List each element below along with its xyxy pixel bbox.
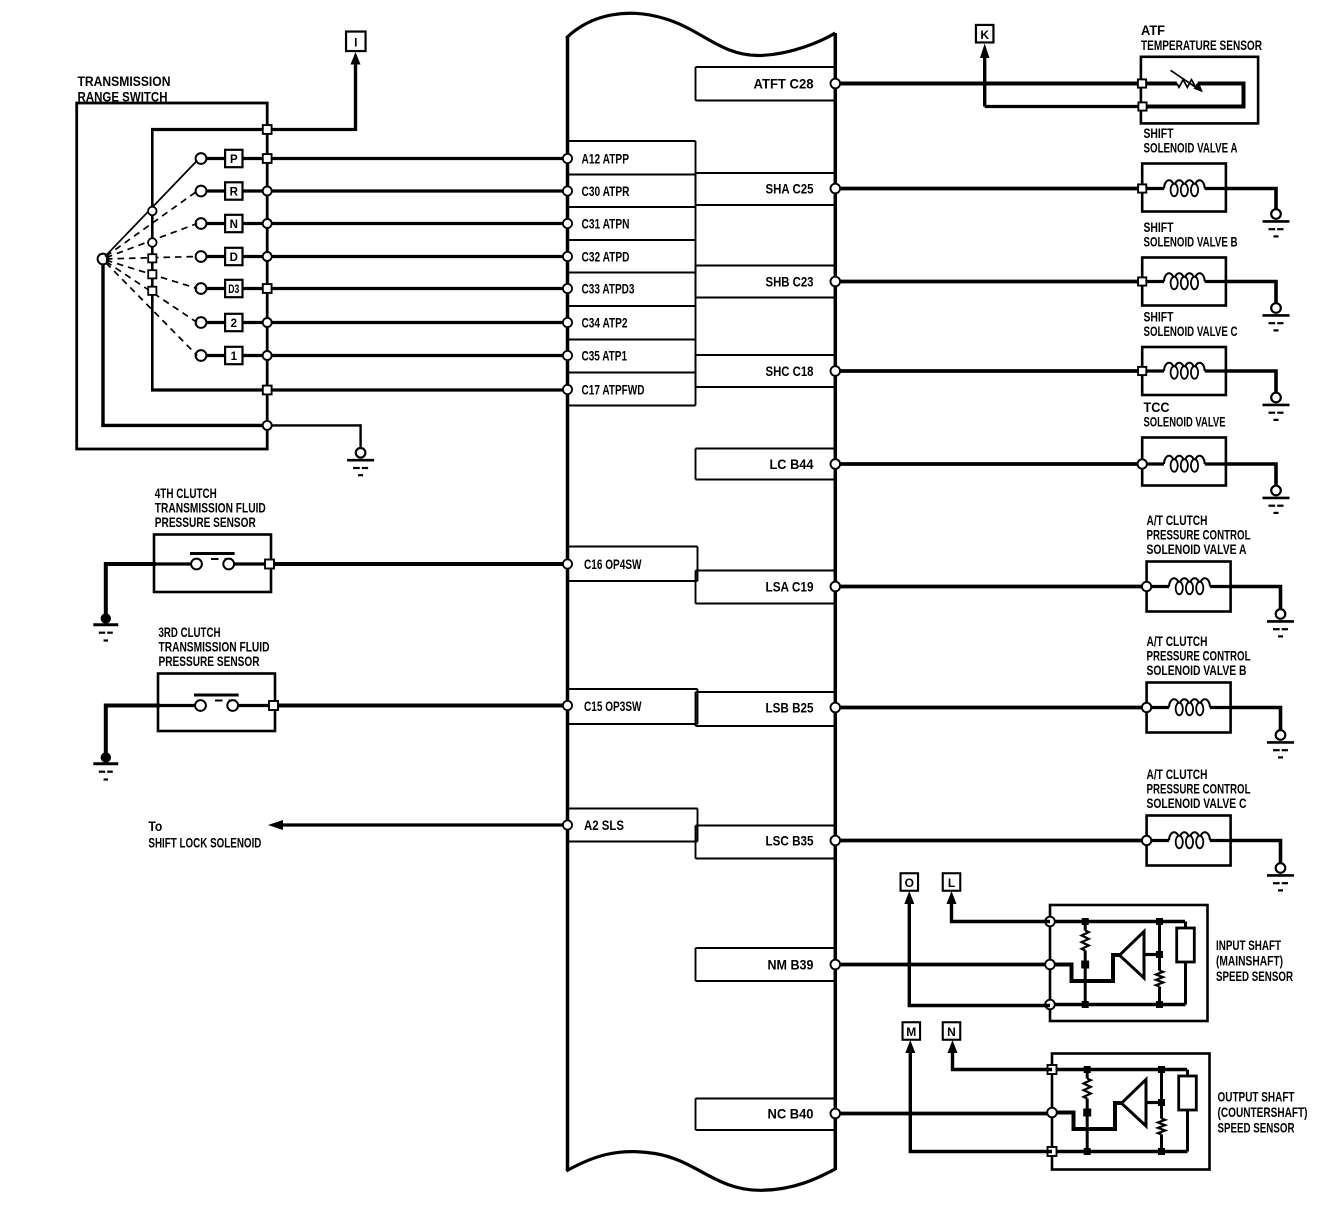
range switch terminal (263, 219, 272, 228)
ECU pin ATFT C28 (831, 79, 841, 89)
shift solenoid valve C box (1142, 347, 1226, 395)
shift solenoid valve A terminal (1138, 184, 1146, 192)
selector arm dashed line to 2 (106, 262, 197, 323)
wire input sensor to connector L (952, 896, 1051, 922)
output shaft speed sensor input staircase wire (1054, 1103, 1122, 1129)
svg-text:LC B44: LC B44 (770, 456, 814, 472)
ECU connector top wavy edge (566, 13, 835, 55)
range switch position wire R (206, 189, 567, 192)
wire 3rd clutch transmission fluid pressure sensor to ECU (278, 704, 567, 708)
A/T clutch pressure control solenoid valve A ground wire (1231, 587, 1281, 613)
svg-text:L: L (948, 876, 955, 890)
svg-text:N: N (947, 1025, 956, 1039)
4th clutch transmission fluid pressure sensor terminal (265, 560, 274, 569)
svg-text:M: M (906, 1025, 916, 1039)
3rd clutch transmission fluid pressure sensor ground wire (106, 706, 160, 755)
svg-text:LSA C19: LSA C19 (766, 579, 814, 595)
ECU pin (831, 184, 841, 194)
input shaft speed sensor bottom rail (1050, 1003, 1186, 1007)
A/T clutch pressure control solenoid valve A coil (1150, 585, 1169, 588)
range switch contact R (196, 186, 207, 197)
3rd clutch transmission fluid pressure sensor switch (158, 704, 201, 707)
ECU pin (563, 252, 572, 261)
ATF sensor inner loop wire (1144, 84, 1244, 107)
range switch pivot contact (98, 254, 109, 265)
A/T clutch pressure control solenoid valve C ground wire (1231, 841, 1281, 867)
crossing node on inner vertical (148, 287, 156, 295)
svg-text:(COUNTERSHAFT): (COUNTERSHAFT) (1218, 1104, 1308, 1120)
range switch position wire 1 (206, 354, 567, 357)
TCC solenoid valve terminal (1138, 459, 1147, 468)
4th clutch transmission fluid pressure sensor ground wire (106, 564, 156, 616)
ECU connector left edge (566, 37, 570, 1171)
crossing node on inner vertical (148, 207, 157, 216)
crossing node on inner vertical (148, 238, 157, 247)
pin box SHC C18 (696, 354, 836, 356)
ECU pin (831, 459, 841, 469)
shift solenoid valve A box (1142, 164, 1226, 212)
wire ECU to A/T clutch pressure control solenoid valve C (835, 839, 1147, 843)
4th clutch transmission fluid pressure sensor switch (154, 562, 197, 565)
svg-text:OUTPUT SHAFT: OUTPUT SHAFT (1218, 1089, 1295, 1105)
svg-text:K: K (980, 28, 989, 42)
wire ECU to shift solenoid valve A (835, 187, 1142, 191)
svg-text:SHB C23: SHB C23 (766, 274, 814, 290)
range switch inner wire vertical (151, 130, 154, 391)
svg-text:SPEED SENSOR: SPEED SENSOR (1218, 1120, 1295, 1136)
TCC solenoid valve coil (1146, 462, 1164, 465)
range switch terminal (263, 351, 272, 360)
ATF sensor terminal bottom (1138, 102, 1146, 110)
svg-text:TRANSMISSION: TRANSMISSION (78, 73, 171, 89)
A/T clutch pressure control solenoid valve A terminal (1142, 582, 1151, 591)
position letter box N (225, 215, 242, 232)
ECU pin (831, 366, 841, 376)
svg-text:TEMPERATURE SENSOR: TEMPERATURE SENSOR (1141, 37, 1262, 53)
crossing node on inner vertical (148, 270, 156, 278)
ECU pin (563, 701, 572, 710)
position letter box 2 (225, 314, 242, 331)
A/T clutch pressure control solenoid valve B ground (1276, 730, 1286, 740)
output shaft speed sensor op-amp output wire (1146, 1101, 1162, 1104)
wire sensor to connector K (985, 105, 1143, 108)
shift solenoid valve B ground (1271, 303, 1281, 313)
range switch contact D (196, 251, 207, 262)
output shaft speed sensor box (1052, 1054, 1210, 1170)
svg-text:2: 2 (231, 318, 237, 330)
svg-text:INPUT SHAFT: INPUT SHAFT (1216, 937, 1281, 953)
range switch contact 1 (196, 350, 207, 361)
shift solenoid valve B box (1142, 258, 1226, 306)
output shaft speed sensor bottom rail (1052, 1150, 1188, 1154)
range switch position wire 2 (206, 321, 567, 324)
shift solenoid valve B terminal (1138, 277, 1146, 285)
pin box C16 OP4SW (568, 546, 698, 548)
output shaft speed sensor pins (1048, 1065, 1057, 1074)
ECU pin A2 SLS (563, 820, 572, 829)
pin box C15 OP3SW (568, 688, 698, 690)
shift solenoid valve A ground wire (1226, 189, 1276, 213)
ECU pin (563, 154, 572, 163)
shift solenoid valve C terminal (1138, 367, 1146, 375)
ECU left pin-box column grid (568, 140, 696, 142)
range switch position wire D3 (206, 287, 567, 290)
input shaft speed sensor resistor R1 (1084, 922, 1087, 931)
position letter box 1 (225, 347, 242, 364)
connector box M (903, 1022, 921, 1040)
svg-text:SOLENOID VALVE C: SOLENOID VALVE C (1147, 795, 1247, 811)
ECU pin (563, 559, 572, 568)
input shaft speed sensor pins (1045, 917, 1055, 927)
pin box LSC B35 (696, 825, 836, 827)
selector arm dashed line to N (106, 224, 197, 258)
svg-text:ATFT C28: ATFT C28 (754, 76, 814, 92)
range switch ground (356, 448, 366, 458)
ECU pin (831, 582, 841, 592)
wire ECU to A/T clutch pressure control solenoid valve B (835, 706, 1147, 710)
3rd clutch transmission fluid pressure sensor box (158, 674, 275, 732)
ECU pin (563, 318, 572, 327)
selector arm engaged line to P (105, 161, 197, 257)
input shaft speed sensor resistor R2 (1158, 922, 1161, 971)
wire I arrow vertical (354, 60, 357, 131)
range switch terminal (263, 187, 272, 196)
TCC solenoid valve ground (1271, 486, 1281, 496)
svg-text:P: P (230, 154, 238, 166)
svg-text:C17 ATPFWD: C17 ATPFWD (582, 382, 645, 398)
connector box K (976, 25, 994, 43)
range switch terminal C17 (263, 386, 272, 395)
pin box SHA C25 (696, 172, 836, 174)
shift solenoid valve B ground wire (1226, 282, 1276, 307)
input shaft speed sensor input staircase wire (1052, 955, 1120, 981)
svg-text:To: To (148, 818, 162, 834)
svg-text:SPEED SENSOR: SPEED SENSOR (1216, 968, 1293, 984)
ECU pin (831, 703, 841, 713)
pin box ATFT C28 (696, 66, 836, 68)
pin box NM B39 (696, 947, 836, 949)
svg-text:(MAINSHAFT): (MAINSHAFT) (1216, 953, 1283, 969)
selector arm dashed line to D3 (106, 260, 197, 288)
wire ECU to shift solenoid valve C (835, 369, 1142, 373)
range switch terminal (263, 252, 272, 261)
pin box LSB B25 (696, 691, 836, 693)
connector box O (901, 873, 919, 891)
A/T clutch pressure control solenoid valve B box (1147, 683, 1231, 733)
range switch C17 ATPFWD wire (151, 388, 567, 391)
wire A2 SLS to shift lock solenoid (281, 823, 567, 826)
svg-text:SOLENOID VALVE A: SOLENOID VALVE A (1144, 140, 1238, 156)
crossing node on inner vertical (148, 254, 156, 262)
ECU pin (563, 385, 572, 394)
ECU connector right edge (834, 33, 838, 1170)
connector box L (943, 873, 961, 891)
range switch position wire N (206, 222, 567, 225)
range switch terminal (263, 284, 272, 293)
selector arm dashed line to R (106, 191, 197, 256)
shift solenoid valve B coil (1146, 280, 1164, 283)
ECU pin (563, 219, 572, 228)
shift solenoid valve A coil (1146, 187, 1164, 190)
A/T clutch pressure control solenoid valve B ground wire (1231, 708, 1281, 734)
svg-text:D: D (230, 252, 238, 264)
svg-text:D3: D3 (228, 284, 239, 296)
range switch contact D3 (196, 283, 207, 294)
output shaft speed sensor load resistor (1186, 1070, 1189, 1077)
position letter box R (225, 182, 242, 199)
connector box I (346, 32, 366, 52)
svg-text:A2 SLS: A2 SLS (584, 817, 624, 833)
range switch top wire to connector I (151, 128, 356, 131)
svg-text:C33 ATPD3: C33 ATPD3 (582, 281, 635, 297)
svg-text:R: R (230, 187, 239, 199)
input shaft speed sensor load resistor (1184, 922, 1187, 929)
range switch contact N (196, 218, 207, 229)
input shaft speed sensor top rail (1050, 920, 1185, 924)
svg-text:SHC C18: SHC C18 (766, 363, 814, 379)
wire input sensor to connector O (909, 896, 1050, 1006)
range switch common pole wire (101, 262, 104, 425)
range switch position wire P (206, 157, 567, 160)
svg-text:C30 ATPR: C30 ATPR (582, 183, 630, 199)
svg-text:NM B39: NM B39 (768, 957, 814, 973)
input shaft speed sensor op-amp (1120, 932, 1145, 979)
ECU connector bottom wavy edge (566, 1152, 835, 1191)
range switch terminal (263, 318, 272, 327)
wire NC B40 to output speed sensor (835, 1112, 1052, 1116)
wire ECU to A/T clutch pressure control solenoid valve A (835, 585, 1147, 589)
svg-text:SOLENOID VALVE: SOLENOID VALVE (1144, 414, 1226, 430)
wire ECU to TCC solenoid valve (835, 462, 1142, 466)
range switch position wire D (206, 255, 567, 258)
pin box LSA C19 (696, 570, 836, 572)
ATF temperature sensor box (1141, 57, 1258, 124)
TCC solenoid valve ground wire (1226, 464, 1276, 489)
svg-text:SOLENOID VALVE C: SOLENOID VALVE C (1144, 323, 1238, 339)
svg-text:SHIFT LOCK SOLENOID: SHIFT LOCK SOLENOID (148, 835, 261, 851)
output shaft speed sensor top rail (1052, 1068, 1187, 1072)
shift solenoid valve C ground (1271, 393, 1281, 403)
svg-text:C31 ATPN: C31 ATPN (582, 216, 630, 232)
ATF sensor terminal top (1138, 79, 1146, 87)
svg-text:1: 1 (231, 351, 238, 363)
range switch terminal top (263, 125, 272, 134)
A/T clutch pressure control solenoid valve C terminal (1142, 836, 1151, 845)
A/T clutch pressure control solenoid valve C coil (1150, 839, 1169, 842)
wire ECU to shift solenoid valve B (835, 280, 1142, 284)
svg-text:C16 OP4SW: C16 OP4SW (584, 556, 642, 572)
wire output sensor to connector N (953, 1045, 1053, 1070)
A/T clutch pressure control solenoid valve B coil (1150, 706, 1169, 709)
output shaft speed sensor resistor R2 (1160, 1070, 1163, 1119)
ECU pin (831, 277, 841, 287)
input shaft speed sensor op-amp output wire (1144, 953, 1160, 956)
range switch terminal (263, 154, 272, 163)
svg-text:SOLENOID VALVE A: SOLENOID VALVE A (1147, 541, 1247, 557)
pin box SHB C23 (696, 265, 836, 267)
position letter box P (225, 150, 242, 167)
svg-text:LSC B35: LSC B35 (766, 833, 814, 849)
svg-text:NC B40: NC B40 (768, 1106, 814, 1122)
A/T clutch pressure control solenoid valve A ground (1276, 609, 1286, 619)
svg-text:C32 ATPD: C32 ATPD (582, 249, 630, 265)
svg-text:A12 ATPP: A12 ATPP (582, 151, 630, 167)
ECU pin (563, 284, 572, 293)
A/T clutch pressure control solenoid valve B terminal (1142, 703, 1151, 712)
position letter box D (225, 248, 242, 265)
TCC solenoid valve box (1142, 438, 1226, 486)
output shaft speed sensor resistor R1 (1086, 1070, 1089, 1079)
shift solenoid valve A ground (1271, 209, 1281, 219)
svg-text:SOLENOID VALVE B: SOLENOID VALVE B (1144, 234, 1238, 250)
svg-text:PRESSURE SENSOR: PRESSURE SENSOR (159, 653, 260, 669)
svg-text:PRESSURE SENSOR: PRESSURE SENSOR (155, 514, 256, 530)
ECU pin (563, 351, 572, 360)
shift solenoid valve C coil (1146, 369, 1164, 372)
range switch contact P (196, 153, 207, 164)
selector arm dashed line to D (106, 257, 197, 259)
svg-text:O: O (905, 876, 914, 890)
input shaft speed sensor box (1050, 905, 1208, 1021)
selector arm dashed line to 1 (106, 263, 197, 356)
A/T clutch pressure control solenoid valve C ground (1276, 863, 1286, 873)
4th clutch transmission fluid pressure sensor ground (101, 613, 111, 623)
4th clutch transmission fluid pressure sensor box (154, 535, 271, 593)
pin box LC B44 (696, 448, 836, 450)
3rd clutch transmission fluid pressure sensor terminal (269, 701, 278, 710)
A/T clutch pressure control solenoid valve C box (1147, 816, 1231, 866)
wire 4th clutch transmission fluid pressure sensor to ECU (274, 562, 567, 566)
svg-text:ATF: ATF (1141, 22, 1165, 38)
thermistor element (1177, 80, 1198, 88)
svg-text:C15 OP3SW: C15 OP3SW (584, 698, 642, 714)
svg-text:I: I (354, 35, 357, 49)
3rd clutch transmission fluid pressure sensor ground (101, 752, 111, 762)
wire NM B39 to input speed sensor (835, 963, 1050, 967)
wire output sensor to connector M (910, 1045, 1052, 1152)
transmission range switch outer box (77, 103, 268, 449)
shift solenoid valve C ground wire (1226, 371, 1276, 396)
ECU pin (831, 836, 841, 846)
A/T clutch pressure control solenoid valve A box (1147, 562, 1231, 612)
svg-text:SOLENOID VALVE B: SOLENOID VALVE B (1147, 662, 1247, 678)
svg-text:N: N (230, 219, 238, 231)
pin box NC B40 (696, 1098, 836, 1100)
pin box A2 SLS (568, 808, 698, 810)
range switch contact 2 (196, 317, 207, 328)
wire ATFT C28 to sensor (835, 82, 1142, 86)
position letter box D3 (225, 280, 242, 297)
connector box N (943, 1022, 961, 1040)
output shaft speed sensor op-amp (1122, 1080, 1147, 1127)
ECU pin (563, 186, 572, 195)
range switch terminal common (263, 421, 272, 430)
svg-text:C35 ATP1: C35 ATP1 (582, 348, 628, 364)
svg-text:SHA C25: SHA C25 (766, 181, 814, 197)
svg-text:C34 ATP2: C34 ATP2 (582, 315, 628, 331)
svg-text:LSB B25: LSB B25 (766, 700, 814, 716)
